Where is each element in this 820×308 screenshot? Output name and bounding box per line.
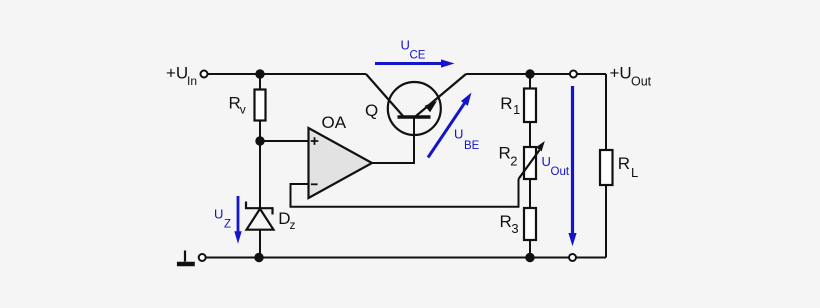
op-amp plus input marker [311,137,319,145]
terminal +U_In [201,71,208,78]
wire op-amp minus feedback loop to R2 wiper [291,179,519,207]
svg-text:R: R [500,212,512,231]
svg-text:2: 2 [510,153,517,168]
svg-text:L: L [631,165,638,180]
svg-text:OA: OA [322,113,347,132]
svg-text:R: R [499,144,511,163]
transistor Q1 circle [388,82,441,135]
svg-text:U: U [454,126,463,141]
svg-text:+U: +U [166,63,188,82]
wire R_L bottom to bottom rail [605,185,607,258]
ground [184,251,186,262]
svg-text:BE: BE [464,140,480,152]
zener diode Dz triangle [247,209,274,230]
svg-text:Z: Z [224,218,231,230]
svg-text:U: U [542,154,551,169]
svg-text:Q: Q [365,101,378,120]
transistor emitter lead [416,74,466,116]
junction dot at Rv bottom / opamp plus [255,136,264,145]
svg-text:CE: CE [410,49,426,61]
svg-text:Out: Out [631,74,652,88]
voltage arrow U_Out (output, long) [571,86,574,235]
svg-text:U: U [401,38,410,53]
terminal +U_Out [570,71,577,78]
voltage arrow U_Z [237,196,240,232]
transistor collector lead [366,74,403,116]
potentiometer R2 [524,147,536,179]
wire top rail left (+U_In to collector diagonal) [208,73,366,75]
wire left column (top rail through R_v, zener, to bottom rail) [259,74,261,258]
svg-text:z: z [290,218,296,232]
junction dot at R3 bottom [525,253,534,262]
op-amp minus input marker [311,183,318,185]
terminal ground-right [569,254,576,261]
voltage arrow U_BE [428,103,465,157]
svg-text:v: v [240,102,246,116]
svg-text:Out: Out [551,166,570,178]
op-amp U1 (OA) [309,128,373,198]
wire bottom rail [206,257,606,259]
zener diode Dz cathode bar with wings [246,202,273,215]
wiper arrow of R2 [519,150,540,179]
resistor Rv [255,90,266,121]
svg-text:R: R [500,94,512,113]
wire right chain R1-R2-R3 [529,74,531,258]
wire op-amp plus input from R_v junction [260,140,309,142]
resistor RL [600,150,613,185]
wire top rail right (emitter to R_L corner) [466,73,606,75]
svg-text:1: 1 [513,102,520,117]
wire op-amp output to transistor base [372,119,414,164]
transistor emitter arrowhead [425,101,437,112]
svg-text:In: In [187,74,197,88]
wire right edge down to R_L [605,74,607,150]
junction dot at R1 top [525,69,534,78]
resistor R3 [524,208,536,240]
svg-text:3: 3 [511,221,518,236]
resistor R1 [524,89,536,123]
transistor base bar [398,115,431,119]
svg-text:U: U [214,207,223,222]
junction dot at zener bottom [254,253,263,262]
svg-text:+U: +U [610,63,632,82]
junction dot at Rv top [255,69,264,78]
terminal ground-left [199,254,206,261]
svg-text:R: R [618,154,630,173]
voltage arrow U_CE [375,62,443,65]
